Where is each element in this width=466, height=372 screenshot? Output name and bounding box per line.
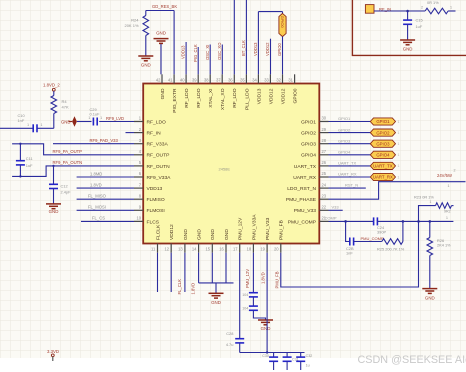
svg-text:RF_LDO: RF_LDO	[184, 88, 190, 107]
port GPIO0 vertical on pin32	[282, 12, 284, 14]
wire pins 14-16 ground bus	[198, 253, 200, 283]
svg-text:39: 39	[192, 78, 197, 83]
capacitor C24 series on COMP line	[374, 217, 378, 225]
svg-text:GPIO0: GPIO0	[277, 43, 282, 56]
svg-text:35: 35	[240, 78, 245, 83]
svg-text:RF_OUTP: RF_OUTP	[147, 153, 170, 159]
resistor R24 vertical	[145, 11, 147, 16]
wire pin24 LDO_RST_N with label RST_N	[329, 187, 366, 189]
wire pin10 with label FL_CS	[81, 220, 134, 222]
pin 32 VDD12 top	[282, 74, 284, 83]
ground for pins 14-16	[209, 293, 224, 298]
svg-text:GND: GND	[211, 300, 221, 305]
svg-text:GPIO4: GPIO4	[301, 153, 316, 159]
svg-text:20K 1%: 20K 1%	[124, 23, 138, 28]
resistor R11 horizontal	[425, 8, 448, 14]
svg-text:C32: C32	[306, 354, 313, 358]
svg-text:C11: C11	[26, 156, 33, 161]
svg-text:PIG_EXTR: PIG_EXTR	[172, 88, 178, 113]
port GPIO2	[370, 129, 395, 136]
pin 10 FLCS left	[134, 220, 143, 222]
wire pin7 with label 1.8VD	[77, 187, 134, 189]
ground arrow left on pin1 wire	[72, 116, 77, 126]
svg-text:GND: GND	[261, 326, 271, 331]
svg-text:PMU_COMP: PMU_COMP	[288, 219, 316, 225]
svg-text:13: 13	[178, 247, 183, 252]
svg-text:1: 1	[88, 116, 90, 120]
svg-text:UART_RX: UART_RX	[338, 172, 357, 177]
svg-text:47K: 47K	[62, 104, 69, 109]
svg-text:PLL_LDO: PLL_LDO	[244, 88, 250, 110]
capacitor C28b series on pin17 wire	[235, 339, 244, 343]
pin 1 RF_LDO left	[134, 121, 143, 123]
capacitor C18b series	[249, 306, 258, 310]
port GPIO1	[370, 118, 395, 125]
svg-text:17: 17	[233, 247, 238, 252]
capacitor C18a series	[249, 293, 258, 297]
svg-text:LDO_RST_N: LDO_RST_N	[287, 186, 316, 192]
pin 3 RF_V33A left	[134, 143, 143, 145]
svg-text:PMU_COMP: PMU_COMP	[361, 236, 384, 241]
pin 16 GND bottom	[225, 244, 227, 253]
svg-text:390P: 390P	[377, 230, 386, 235]
svg-text:24: 24	[322, 182, 327, 187]
svg-text:FLCLK: FLCLK	[155, 224, 161, 240]
pin 19 PMU_V33 bottom	[266, 244, 268, 253]
svg-text:24V/5W: 24V/5W	[437, 173, 452, 178]
svg-text:26: 26	[322, 160, 327, 165]
pin 36 RF_LDO top	[233, 74, 235, 83]
svg-text:GND: GND	[160, 88, 166, 99]
svg-text:RF_V33A: RF_V33A	[147, 142, 169, 148]
svg-text:37: 37	[216, 78, 221, 83]
svg-text:2K4 1%: 2K4 1%	[437, 243, 451, 248]
pin 23 PMU_PHASE right	[319, 198, 328, 200]
port GPIO4	[370, 151, 395, 158]
wire pin33 up with net label VDD12	[270, 39, 272, 75]
pin 14 GND bottom	[198, 244, 200, 253]
wire pin26 to port UART_TX	[329, 165, 371, 167]
wire pin34 up and jog to port GPIO0 top	[257, 12, 259, 75]
svg-text:XTAL_XO: XTAL_XO	[220, 88, 226, 110]
svg-text:C28: C28	[226, 331, 233, 336]
svg-text:GND: GND	[425, 296, 435, 301]
pin 25 UART_RX right	[319, 176, 328, 178]
svg-text:VDD13: VDD13	[181, 45, 186, 59]
port UART_RX	[370, 173, 395, 180]
svg-text:R24: R24	[131, 18, 139, 23]
pin 41 PIG_EXTR top	[173, 74, 175, 83]
svg-text:PMU_FB: PMU_FB	[279, 220, 285, 240]
svg-text:PMU_FB: PMU_FB	[275, 271, 280, 288]
ground GND pin42	[154, 39, 169, 44]
svg-text:0R 1%: 0R 1%	[427, 0, 439, 5]
svg-text:GPIO1: GPIO1	[376, 119, 390, 124]
svg-text:31: 31	[288, 78, 293, 83]
svg-text:4.7u: 4.7u	[226, 342, 234, 347]
svg-text:UART_RX: UART_RX	[373, 175, 393, 180]
pin 31 GPIO0 top	[294, 74, 296, 83]
wire pin21 PMU_COMP main	[329, 220, 374, 222]
svg-text:12: 12	[164, 247, 169, 252]
resistor R4 vertical from 1.8VD_2	[53, 91, 55, 95]
svg-text:104: 104	[242, 293, 248, 297]
svg-text:CSDN @SEEKSEE AIoT: CSDN @SEEKSEE AIoT	[358, 354, 466, 366]
svg-text:UART_TX: UART_TX	[338, 161, 356, 166]
capacitor C12 to ground from OUTN	[52, 165, 54, 167]
wire horizontal 1.8VD_2 rail	[37, 127, 54, 129]
pin 34 VDD13 top	[257, 74, 259, 83]
svg-text:14: 14	[192, 247, 197, 252]
svg-text:GPIO3: GPIO3	[376, 141, 390, 146]
svg-text:PMU_PHASE: PMU_PHASE	[286, 197, 317, 203]
capacitor C10 in series	[33, 124, 37, 132]
capacitor C29 series on pin1 wire	[93, 118, 97, 126]
svg-text:1: 1	[27, 123, 29, 127]
svg-text:UART_TX: UART_TX	[294, 164, 317, 170]
wire pin1 RF_LDO to cap and ground	[99, 121, 134, 123]
svg-text:10: 10	[136, 216, 141, 221]
svg-text:1.8VD_2: 1.8VD_2	[43, 83, 60, 88]
resistor R26 divider vertical	[429, 220, 432, 223]
svg-text:28: 28	[322, 138, 327, 143]
svg-text:GND: GND	[156, 31, 166, 36]
wire pin12 down with label FL_CLK	[170, 253, 172, 292]
svg-text:RF9_PAD_V33: RF9_PAD_V33	[90, 138, 119, 143]
svg-text:25: 25	[322, 171, 327, 176]
svg-text:RF9_V33A: RF9_V33A	[147, 175, 172, 181]
wire pin39 up with net label PIG_CLK	[197, 47, 199, 74]
svg-text:VDD13: VDD13	[256, 88, 262, 104]
svg-text:1.8VD: 1.8VD	[261, 272, 266, 284]
svg-text:FLMOSI: FLMOSI	[147, 208, 165, 214]
wire pin23 PMU_PHASE to right edge	[329, 182, 466, 200]
svg-text:GND: GND	[183, 229, 189, 240]
svg-text:1: 1	[100, 116, 102, 120]
svg-text:VDD12: VDD12	[169, 224, 175, 240]
svg-text:23: 23	[322, 193, 327, 198]
pin 29 GPIO2 right	[319, 132, 328, 134]
port GPIO3	[370, 140, 395, 147]
svg-text:V33: V33	[332, 205, 340, 210]
svg-text:29: 29	[322, 127, 327, 132]
svg-text:2: 2	[454, 169, 456, 173]
svg-text:PMU_V33: PMU_V33	[294, 208, 317, 214]
pin 42 GND top	[161, 74, 163, 83]
svg-text:2.4pF: 2.4pF	[61, 190, 72, 195]
svg-text:GPIO2: GPIO2	[376, 130, 390, 135]
svg-text:GPIO2: GPIO2	[338, 127, 351, 132]
svg-text:RF_IN: RF_IN	[147, 131, 162, 137]
svg-text:GPIO0: GPIO0	[292, 88, 298, 103]
pin 13 GND bottom	[184, 244, 186, 253]
wire pin29 to port GPIO2	[329, 132, 371, 134]
svg-text:1uF: 1uF	[26, 163, 33, 168]
svg-text:1.8VD: 1.8VD	[90, 182, 102, 187]
svg-text:PMU_12V: PMU_12V	[238, 217, 244, 240]
node junction A	[344, 220, 347, 223]
wire pin27 to port GPIO4	[329, 154, 371, 156]
svg-text:C12: C12	[61, 183, 68, 188]
svg-text:1: 1	[430, 200, 432, 204]
wire pin8 with label FL_MISO	[77, 198, 134, 200]
svg-text:RF_LDO: RF_LDO	[147, 119, 166, 125]
svg-text:1: 1	[448, 184, 450, 188]
svg-text:1: 1	[398, 120, 400, 124]
ground below pin18 caps	[258, 320, 273, 325]
svg-text:104: 104	[242, 306, 248, 310]
wire pin13 down with label 1.8VD	[184, 253, 186, 292]
pin 11 FLCLK bottom	[157, 244, 159, 253]
capacitor C30 on rail	[273, 353, 275, 357]
svg-text:R25 200.7K 1%: R25 200.7K 1%	[377, 247, 405, 252]
svg-text:GPIO1: GPIO1	[301, 119, 316, 125]
svg-text:VDD12: VDD12	[280, 88, 286, 104]
pin 27 GPIO4 right	[319, 154, 328, 156]
pin 17 PMU_12V bottom	[239, 244, 241, 253]
svg-text:BT_CLK: BT_CLK	[241, 40, 246, 56]
svg-text:GPIO1: GPIO1	[338, 116, 351, 121]
pin 39 RF_LDO top	[197, 74, 199, 83]
svg-text:UART_RX: UART_RX	[293, 175, 316, 181]
svg-text:C30: C30	[262, 354, 269, 358]
port UART_TX	[370, 162, 395, 169]
capacitor C15 to ground	[407, 11, 409, 20]
wire pin22 PMU_V33 with label V33	[329, 209, 343, 211]
svg-text:PMU_V33: PMU_V33	[265, 217, 271, 240]
wire pin30 to port GPIO1	[329, 121, 371, 123]
svg-text:FLCS: FLCS	[147, 219, 160, 225]
wire pin19 down with label 1.8VD	[266, 253, 268, 353]
svg-text:GND: GND	[49, 209, 59, 214]
svg-text:1.8VD: 1.8VD	[190, 283, 195, 295]
wire match network bottom OUTN	[12, 166, 134, 177]
wire COMP RC branch down	[346, 221, 350, 241]
svg-text:C15: C15	[416, 18, 423, 23]
svg-text:GND: GND	[210, 229, 216, 240]
wire pin2 RF_IN stub	[126, 132, 135, 134]
pin 8 FLMISO left	[134, 198, 143, 200]
wire port GPIO0 down to pin32	[282, 37, 284, 75]
svg-text:3.3VD: 3.3VD	[47, 349, 59, 354]
pin 4 RF_OUTP left	[134, 154, 143, 156]
svg-text:RF_LDO: RF_LDO	[196, 88, 202, 107]
IC U1 body	[143, 84, 319, 244]
svg-text:1: 1	[446, 216, 448, 220]
wire pin36 long up to top edge	[233, 0, 235, 74]
capacitor C11 shunt	[19, 144, 21, 161]
svg-text:27: 27	[322, 149, 327, 154]
wire bottom rail	[240, 352, 305, 354]
svg-text:38: 38	[204, 78, 209, 83]
svg-text:XTAL_XI: XTAL_XI	[208, 89, 214, 108]
svg-text:20: 20	[274, 247, 279, 252]
svg-text:9R2: 9R2	[444, 210, 451, 214]
svg-text:RST_N: RST_N	[345, 182, 358, 187]
svg-text:FL_CLK: FL_CLK	[177, 279, 182, 295]
svg-text:11: 11	[151, 247, 156, 252]
wire pin41 up	[173, 11, 175, 75]
wire pin9 with label FL_MOSI	[77, 209, 134, 211]
resistor R23 0R horizontal	[436, 203, 452, 209]
ground below C15	[400, 40, 415, 45]
svg-text:PIG_CLK: PIG_CLK	[193, 44, 198, 62]
ground below divider	[422, 289, 437, 294]
svg-text:1nF: 1nF	[346, 250, 353, 255]
svg-text:33: 33	[264, 78, 269, 83]
svg-text:15: 15	[206, 247, 211, 252]
svg-text:OSC_XO: OSC_XO	[217, 42, 222, 60]
svg-text:COMP: COMP	[325, 216, 337, 221]
svg-text:VDD12: VDD12	[268, 88, 274, 104]
svg-text:GND: GND	[197, 229, 203, 240]
capacitor C28 series in branch	[350, 238, 354, 246]
pin 30 GPIO1 right	[319, 121, 328, 123]
wire pin17 down with label PMU_12V	[239, 253, 241, 339]
svg-text:1: 1	[398, 131, 400, 135]
pin 24 LDO_RST_N right	[319, 187, 328, 189]
svg-text:GND: GND	[224, 229, 230, 240]
svg-text:1nF: 1nF	[18, 118, 25, 123]
svg-text:GPIO4: GPIO4	[338, 150, 351, 155]
svg-text:GD_RES_BK: GD_RES_BK	[152, 4, 177, 9]
svg-text:RF9_LVD: RF9_LVD	[106, 116, 124, 121]
svg-text:R23 0R 1%: R23 0R 1%	[414, 194, 434, 199]
svg-text:1: 1	[398, 153, 400, 157]
svg-text:0.1uF: 0.1uF	[90, 111, 101, 116]
svg-text:FL_MOSI: FL_MOSI	[88, 205, 106, 210]
pin 21 PMU_COMP right	[319, 220, 328, 222]
pin 37 XTAL_XO top	[221, 74, 223, 83]
svg-text:PMU_V33A: PMU_V33A	[251, 214, 257, 240]
svg-text:1: 1	[398, 142, 400, 146]
wire top horizontal to resistor R24	[146, 10, 174, 12]
pin 40 RF_LDO top	[185, 74, 187, 83]
svg-text:GPIO4: GPIO4	[376, 153, 390, 158]
ground below resistor R24	[138, 56, 153, 61]
svg-text:FLMISO: FLMISO	[147, 197, 165, 203]
svg-text:40: 40	[180, 78, 185, 83]
svg-text:R4: R4	[62, 99, 68, 104]
svg-text:2: 2	[421, 6, 423, 10]
svg-text:GND: GND	[403, 47, 413, 52]
svg-text:22: 22	[322, 205, 327, 210]
svg-text:FL_MISO: FL_MISO	[88, 194, 107, 199]
svg-text:1: 1	[398, 164, 400, 168]
svg-text:34: 34	[252, 78, 257, 83]
svg-text:GND: GND	[141, 63, 151, 68]
pin 9 FLMOSI left	[134, 209, 143, 211]
svg-text:GND: GND	[61, 119, 71, 124]
svg-text:PMU_12V: PMU_12V	[245, 269, 250, 288]
svg-text:VDD13: VDD13	[147, 186, 163, 192]
wire PMU_FB feedback loop	[281, 221, 419, 287]
svg-text:36: 36	[228, 78, 233, 83]
wire pin28 to port GPIO3	[329, 143, 371, 145]
pin 6 RF9_V33A left	[134, 176, 143, 178]
svg-text:GPIO3: GPIO3	[301, 142, 316, 148]
svg-text:GPIO2: GPIO2	[301, 131, 316, 137]
svg-text:1.8MD: 1.8MD	[90, 171, 102, 176]
svg-text:UART_TX: UART_TX	[373, 164, 393, 169]
pin 22 PMU_V33 right	[319, 209, 328, 211]
wire RF_IN horizontal	[374, 10, 425, 12]
ground below C12	[46, 204, 61, 209]
svg-text:1: 1	[41, 123, 43, 127]
svg-text:30: 30	[322, 116, 327, 121]
pin 7 VDD13 left	[134, 187, 143, 189]
svg-text:FL_CS: FL_CS	[92, 216, 105, 221]
pin 15 GND bottom	[211, 244, 213, 253]
wire branch up to COMP line	[402, 221, 404, 241]
capacitor C31 on rail	[286, 353, 288, 357]
svg-text:19: 19	[260, 247, 265, 252]
pin 18 PMU_V33A bottom	[252, 244, 254, 253]
wire pin18 down with caps	[252, 253, 254, 293]
svg-text:32: 32	[276, 78, 281, 83]
sheet entry RF_IN square	[365, 5, 374, 14]
pin 12 VDD12 bottom	[170, 244, 172, 253]
svg-text:GPIO0: GPIO0	[280, 16, 285, 29]
svg-text:1uF: 1uF	[416, 24, 423, 29]
pin 28 GPIO3 right	[319, 143, 328, 145]
wire pin35 long up to top edge with label	[245, 0, 247, 74]
svg-text:41: 41	[168, 78, 173, 83]
svg-text:OSC_XI: OSC_XI	[205, 45, 210, 60]
resistor R25 in branch	[382, 239, 403, 245]
svg-text:1: 1	[450, 6, 452, 10]
pin 38 XTAL_XI top	[209, 74, 211, 83]
wire match network top OUTP	[12, 144, 134, 155]
sheet symbol border top right	[352, 0, 466, 55]
pin 26 UART_TX right	[319, 165, 328, 167]
wire pin11 down	[157, 253, 159, 292]
wire pin38 up with net label OSC_XI	[209, 45, 211, 75]
svg-text:RF_OUTN: RF_OUTN	[147, 164, 171, 170]
svg-text:VDD12: VDD12	[265, 42, 270, 56]
svg-text:2458E: 2458E	[219, 166, 231, 171]
wire 0R resistor branch up	[417, 220, 420, 223]
svg-text:VDD13: VDD13	[253, 42, 258, 56]
pin 2 RF_IN left	[134, 132, 143, 134]
wire pin25 to port UART_RX	[329, 176, 371, 178]
wire pin37 up with net label OSC_XO	[221, 45, 223, 75]
wire pin3 RF_V33A with label RF9_PAD_V33	[53, 143, 134, 145]
pin 35 PLL_LDO top	[245, 74, 247, 83]
svg-text:RF_LDO: RF_LDO	[232, 88, 238, 107]
capacitor C32 on rail	[300, 353, 302, 357]
pin 33 VDD12 top	[269, 74, 271, 83]
svg-text:16: 16	[219, 247, 224, 252]
svg-text:42: 42	[156, 78, 161, 83]
wire pin42 to GND symbol	[160, 44, 162, 75]
wire pin40 up with net label VDD13	[185, 42, 187, 74]
svg-text:RF9_PA_OUTP: RF9_PA_OUTP	[53, 149, 83, 154]
svg-text:1: 1	[398, 175, 400, 179]
svg-text:RF9_PA_OUTN: RF9_PA_OUTN	[53, 160, 83, 165]
svg-text:GPIO3: GPIO3	[338, 138, 351, 143]
pin 20 PMU_FB bottom	[280, 244, 282, 253]
wire pin6 with label 1.8MD	[77, 176, 134, 178]
pin 5 RF_OUTN left	[134, 165, 143, 167]
svg-text:18: 18	[247, 247, 252, 252]
svg-text:1u: 1u	[306, 363, 310, 367]
